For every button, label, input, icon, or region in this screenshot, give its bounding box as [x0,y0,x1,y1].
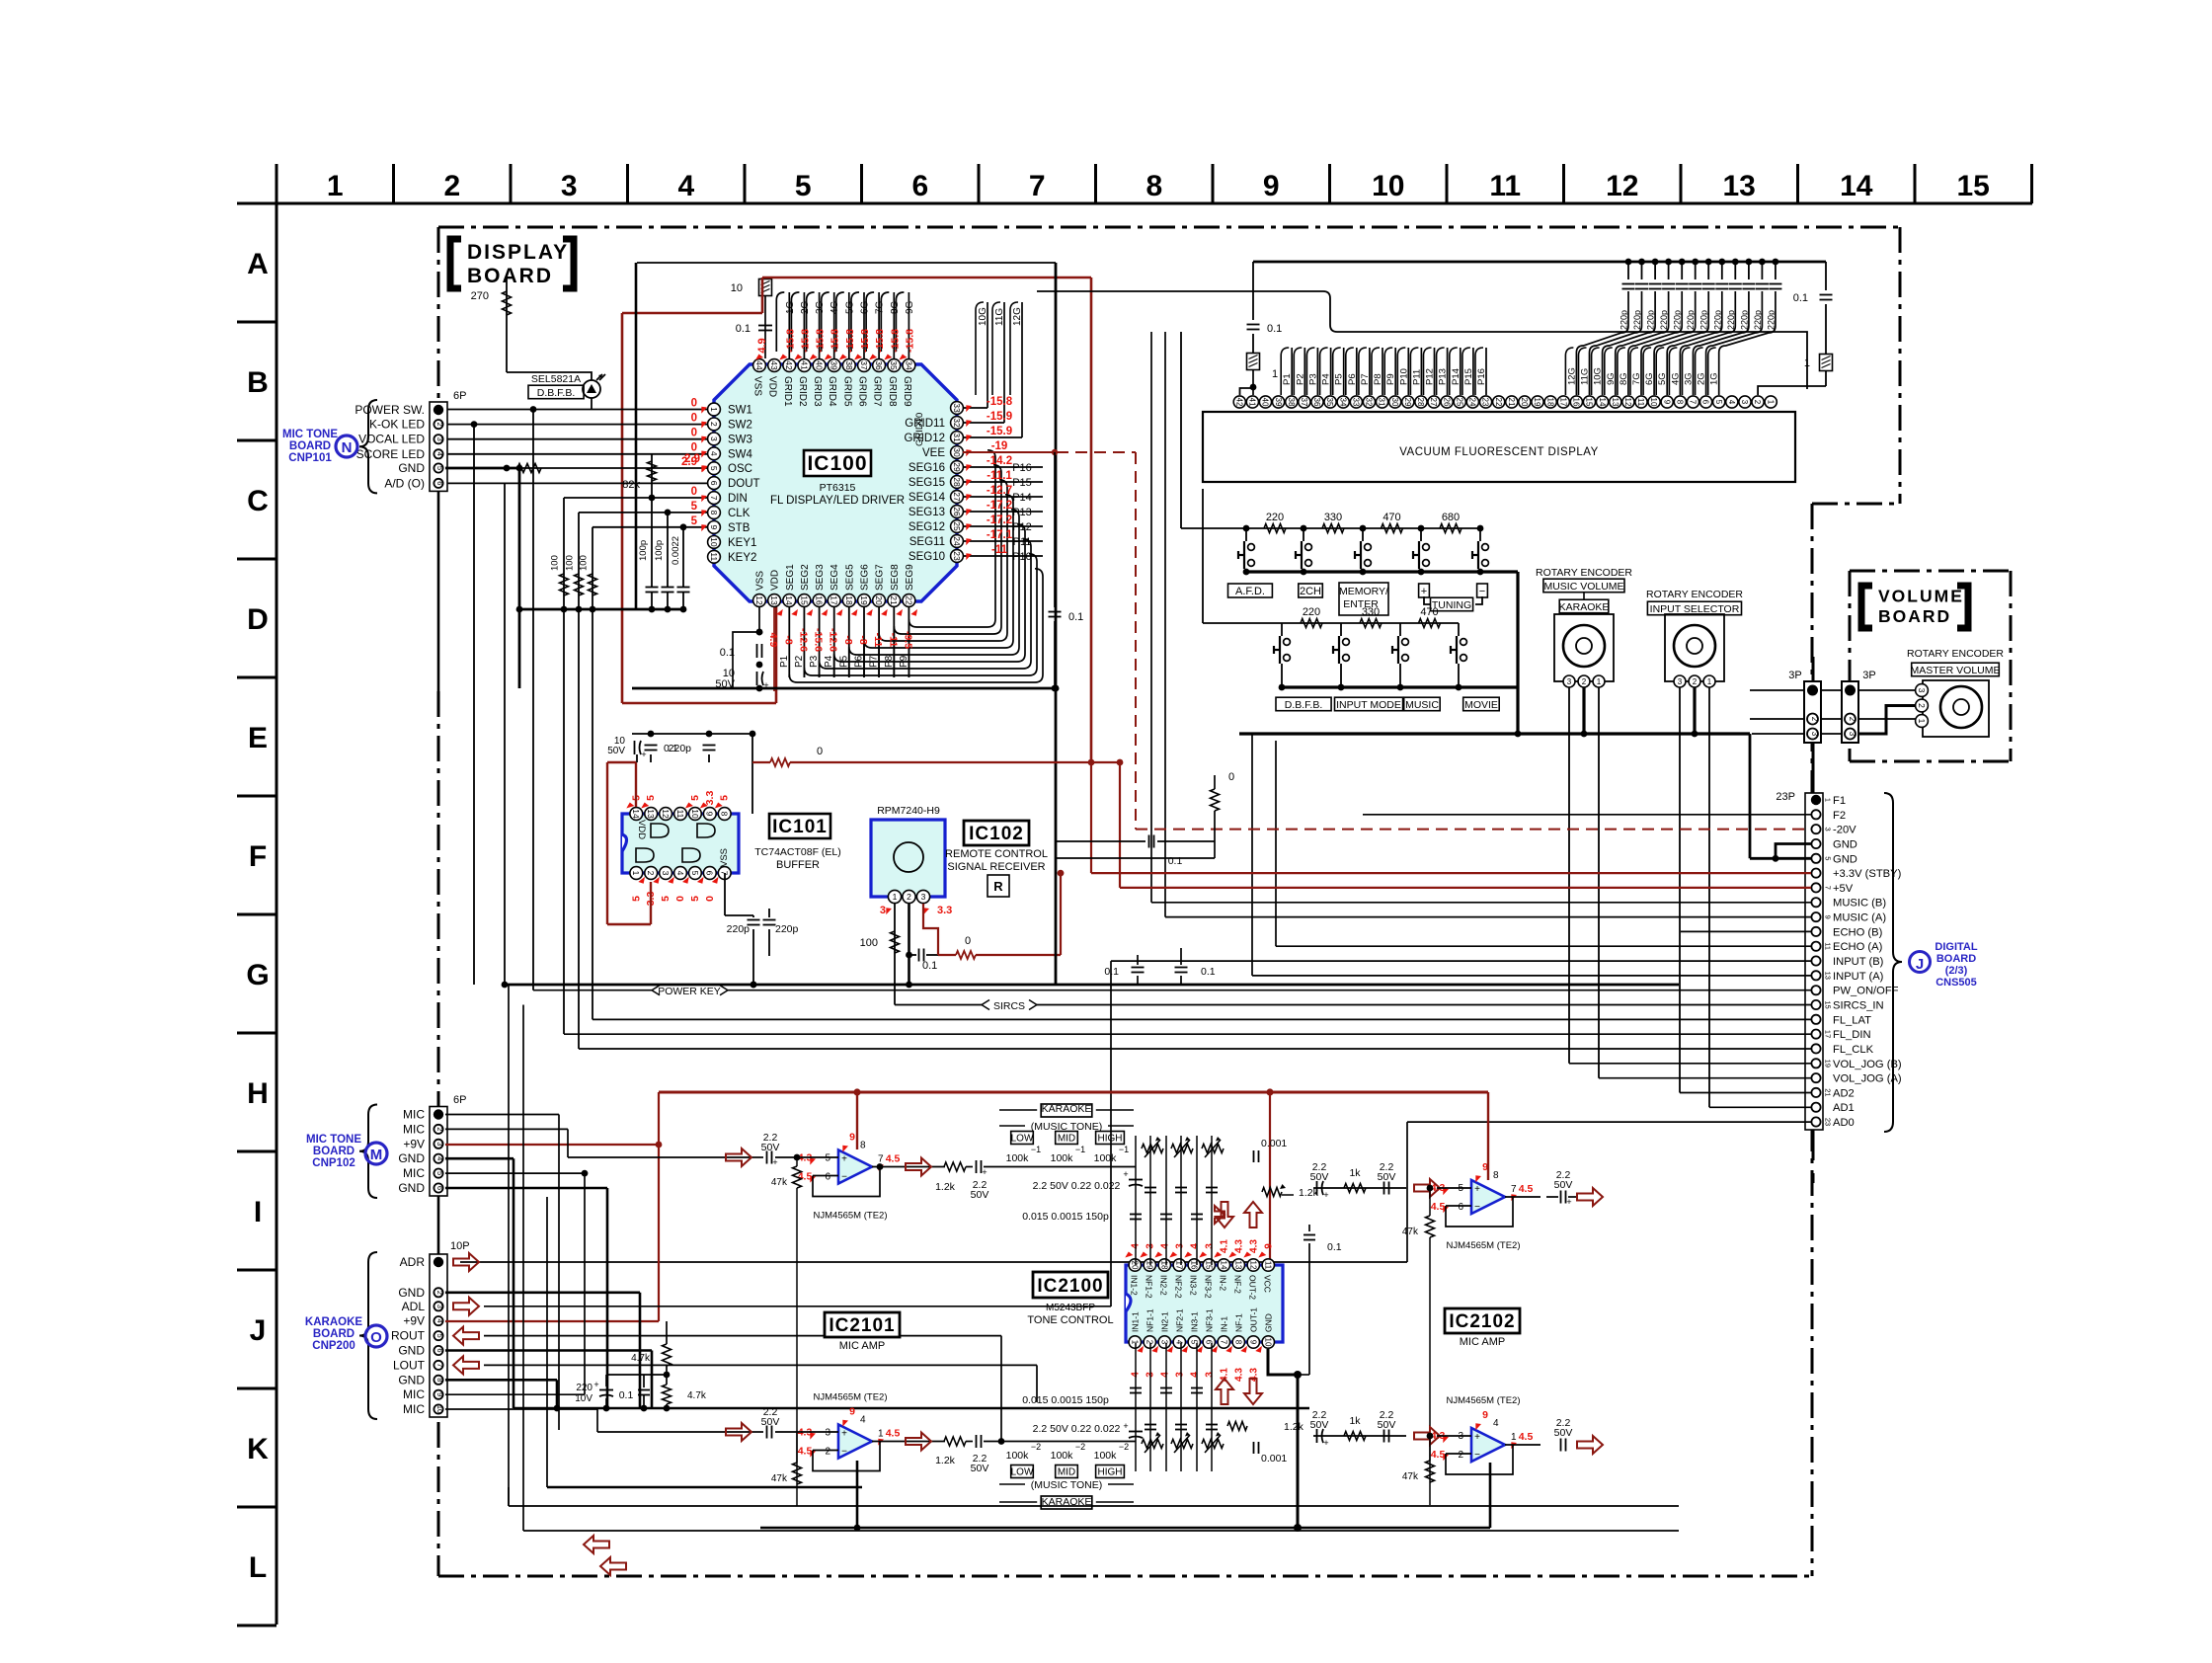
svg-text:IN2-1: IN2-1 [1159,1311,1169,1332]
svg-text:1: 1 [1511,1432,1517,1443]
svg-text:ECHO (A): ECHO (A) [1833,941,1883,953]
svg-text:M5243BFP: M5243BFP [1046,1303,1095,1313]
svg-text:GND: GND [1833,839,1857,851]
svg-text:-15.8: -15.8 [859,329,871,353]
svg-text:BUFFER: BUFFER [776,859,820,871]
svg-text:82k: 82k [622,479,640,491]
svg-text:-11.1: -11.1 [987,470,1012,482]
svg-text:IN-1: IN-1 [1219,1316,1228,1332]
svg-text:38: 38 [1287,398,1296,407]
svg-text:4: 4 [1189,1372,1200,1378]
svg-text:INPUT SELECTOR: INPUT SELECTOR [1650,603,1740,615]
svg-text:2: 2 [435,1127,444,1131]
svg-text:0.1: 0.1 [1201,966,1216,978]
svg-text:GND: GND [398,1151,425,1165]
svg-text:J: J [250,1314,267,1347]
svg-text:5: 5 [709,466,719,471]
svg-text:44: 44 [754,360,764,370]
svg-text:BOARD: BOARD [467,265,553,287]
svg-text:220p: 220p [1739,310,1749,330]
svg-text:3: 3 [1159,1340,1168,1345]
svg-text:3P: 3P [1862,670,1875,681]
svg-text:9: 9 [435,1392,444,1396]
svg-text:36: 36 [874,360,884,370]
svg-text:20: 20 [1130,1261,1139,1270]
svg-text:GND: GND [398,1181,425,1195]
svg-text:8: 8 [860,1141,866,1151]
svg-text:GRID7: GRID7 [872,376,883,407]
svg-text:11G: 11G [994,308,1005,326]
svg-text:3: 3 [825,1428,830,1439]
svg-text:0: 0 [691,441,697,453]
svg-text:GND: GND [398,1344,425,1358]
svg-text:GRID1: GRID1 [782,376,793,407]
svg-text:P13: P13 [1438,368,1449,385]
svg-text:5: 5 [630,896,642,902]
svg-text:4.7k: 4.7k [631,1353,651,1364]
svg-text:+: + [1323,1438,1328,1448]
svg-text:3: 3 [1824,828,1833,831]
svg-text:4.3: 4.3 [1233,1368,1244,1382]
svg-text:VDD: VDD [767,376,778,397]
svg-text:41: 41 [1248,398,1257,407]
svg-text:10: 10 [690,809,700,819]
svg-text:33: 33 [952,403,962,413]
svg-text:21: 21 [1824,1088,1833,1096]
svg-text:5: 5 [825,1153,830,1164]
svg-text:220p: 220p [1699,310,1709,330]
svg-text:SW1: SW1 [728,405,752,417]
svg-text:F1: F1 [1833,795,1846,807]
svg-text:10: 10 [1263,1338,1272,1347]
svg-text:38: 38 [844,360,854,370]
svg-text:0.1: 0.1 [1104,966,1119,978]
svg-text:KEY1: KEY1 [728,537,756,549]
svg-text:4G: 4G [829,300,840,314]
svg-text:100: 100 [860,937,878,949]
svg-text:2CH: 2CH [1300,586,1321,597]
svg-text:1: 1 [1917,719,1927,724]
svg-text:6: 6 [825,1172,830,1183]
svg-text:6: 6 [705,871,715,876]
svg-text:CLK: CLK [728,508,750,519]
svg-text:DISPLAY: DISPLAY [467,241,569,264]
svg-text:P2: P2 [794,655,805,668]
svg-text:MUSIC (A): MUSIC (A) [1833,912,1886,924]
svg-text:9: 9 [1824,915,1833,919]
svg-text:50V: 50V [1378,1419,1396,1431]
svg-text:6: 6 [911,170,928,202]
svg-text:3: 3 [1810,732,1819,737]
svg-text:5: 5 [689,795,701,801]
svg-text:FL DISPLAY/LED DRIVER: FL DISPLAY/LED DRIVER [770,495,905,507]
svg-text:6: 6 [1458,1202,1463,1213]
svg-text:SEG6: SEG6 [860,564,871,591]
svg-text:1G: 1G [785,300,796,314]
svg-text:IN2-2: IN2-2 [1158,1275,1168,1296]
svg-text:220p: 220p [1646,310,1656,330]
svg-text:4.5: 4.5 [1519,1183,1534,1195]
svg-text:4: 4 [1159,1372,1170,1378]
svg-text:5: 5 [691,515,698,527]
svg-text:OSC: OSC [728,463,752,475]
svg-text:NF2-2: NF2-2 [1173,1275,1183,1299]
svg-text:27: 27 [952,492,962,502]
svg-text:10V: 10V [575,1393,592,1404]
svg-text:4.5: 4.5 [886,1428,901,1440]
svg-text:FL_DIN: FL_DIN [1833,1029,1871,1041]
svg-text:SEG8: SEG8 [890,564,901,591]
svg-text:GRID9: GRID9 [902,376,912,407]
svg-text:NF-2: NF-2 [1232,1275,1242,1294]
svg-text:50V: 50V [761,1416,780,1428]
svg-text:6P: 6P [453,390,466,402]
svg-text:-17.2: -17.2 [987,500,1012,512]
svg-text:3: 3 [435,1305,444,1308]
svg-text:6: 6 [709,481,719,486]
svg-text:+: + [1123,1421,1128,1431]
svg-text:P12: P12 [1425,368,1436,385]
svg-text:15: 15 [1957,170,1990,202]
svg-text:VACUUM FLUORESCENT DISPLAY: VACUUM FLUORESCENT DISPLAY [1399,446,1599,458]
svg-text:−2: −2 [1031,1442,1041,1452]
svg-text:+: + [1474,1184,1480,1195]
svg-text:19: 19 [1824,1060,1833,1068]
svg-text:0: 0 [817,746,823,757]
svg-text:ADL: ADL [402,1300,426,1313]
svg-text:-15.8: -15.8 [815,329,827,353]
svg-text:SEG1: SEG1 [785,564,796,591]
svg-text:1: 1 [1824,798,1833,802]
svg-text:IC2102: IC2102 [1449,1311,1515,1332]
svg-text:3.3: 3.3 [937,905,952,916]
svg-text:7G: 7G [875,300,886,314]
svg-text:220p: 220p [1632,310,1642,330]
svg-text:+: + [1474,1432,1480,1443]
svg-text:+: + [1123,1169,1128,1179]
svg-text:INPUT (B): INPUT (B) [1833,956,1884,968]
svg-text:MID: MID [1058,1467,1075,1478]
svg-text:SEL5821A: SEL5821A [531,373,581,385]
svg-text:14: 14 [631,809,641,819]
svg-text:INPUT (A): INPUT (A) [1833,971,1884,983]
svg-text:ECHO (B): ECHO (B) [1833,926,1883,938]
svg-text:16: 16 [815,595,825,605]
svg-text:ROTARY ENCODER: ROTARY ENCODER [1646,589,1743,600]
svg-text:4.5: 4.5 [1431,1449,1446,1461]
svg-text:3: 3 [921,892,926,902]
svg-text:20: 20 [1520,398,1529,407]
svg-text:680: 680 [1442,512,1460,523]
svg-text:VOLUME: VOLUME [1878,587,1964,606]
svg-text:P14: P14 [1012,492,1032,504]
svg-text:10: 10 [1372,170,1404,202]
svg-text:8G: 8G [890,300,901,314]
svg-text:9: 9 [849,1132,855,1144]
svg-text:25: 25 [952,521,962,531]
svg-text:220p: 220p [1686,310,1696,330]
svg-text:A.F.D.: A.F.D. [1235,586,1265,597]
svg-text:CNS505: CNS505 [1935,977,1977,989]
svg-text:K: K [247,1433,269,1465]
svg-text:P8: P8 [1373,373,1383,385]
svg-text:−: − [841,1172,847,1183]
svg-text:4.9: 4.9 [767,633,779,648]
svg-text:3: 3 [661,871,671,876]
svg-text:330: 330 [1362,606,1380,618]
svg-text:0.1: 0.1 [1327,1241,1342,1253]
svg-text:VDD: VDD [770,570,781,591]
svg-text:6G: 6G [860,300,871,314]
svg-text:P5: P5 [1334,373,1345,385]
svg-text:A: A [247,248,269,280]
svg-text:7: 7 [709,496,719,501]
svg-text:50V: 50V [761,1142,780,1153]
svg-text:+5V: +5V [1833,883,1854,895]
svg-text:17: 17 [1824,1030,1833,1038]
svg-text:0: 0 [704,896,716,902]
svg-text:1: 1 [1130,1340,1139,1345]
svg-text:NF2-1: NF2-1 [1174,1308,1184,1332]
svg-text:11: 11 [1263,1261,1272,1270]
svg-text:50V: 50V [1310,1171,1329,1183]
svg-text:4: 4 [435,1156,444,1160]
svg-text:SEG13: SEG13 [908,507,945,518]
svg-text:4.5: 4.5 [798,1446,813,1458]
svg-text:12G: 12G [1012,307,1023,326]
svg-text:9: 9 [849,1406,855,1418]
svg-text:0.0022: 0.0022 [671,536,681,565]
svg-text:25: 25 [1455,398,1463,407]
svg-text:5G: 5G [844,300,855,314]
svg-text:28: 28 [1416,398,1425,407]
svg-text:50V: 50V [971,1189,989,1201]
svg-text:HIGH: HIGH [1098,1134,1123,1145]
svg-text:0.015 0.0015 150p: 0.015 0.0015 150p [1022,1394,1109,1406]
svg-text:BOARD: BOARD [289,440,331,452]
svg-text:220p: 220p [1673,310,1683,330]
svg-text:4: 4 [860,1415,866,1426]
svg-text:10G: 10G [978,307,988,326]
svg-text:5: 5 [645,795,657,801]
svg-text:2: 2 [1753,400,1762,405]
svg-text:220p: 220p [775,923,799,935]
svg-text:3: 3 [880,905,886,916]
svg-text:+: + [593,1380,598,1389]
svg-text:10: 10 [731,282,743,294]
svg-text:10P: 10P [450,1240,470,1252]
svg-text:GRID10: GRID10 [914,413,925,446]
svg-text:AD1: AD1 [1833,1102,1855,1114]
svg-text:5: 5 [435,1334,444,1338]
svg-text:L: L [249,1551,267,1584]
svg-text:P12: P12 [1012,521,1032,533]
svg-text:2.9: 2.9 [681,456,697,468]
svg-text:NJM4565M (TE2): NJM4565M (TE2) [1447,1240,1521,1251]
svg-text:ADR: ADR [400,1255,426,1269]
svg-text:7: 7 [1511,1184,1517,1195]
svg-text:3: 3 [1174,1372,1185,1378]
svg-text:P9: P9 [1385,373,1396,385]
svg-text:DOUT: DOUT [728,478,760,490]
svg-text:220: 220 [576,1383,592,1393]
svg-text:P3: P3 [809,655,820,668]
svg-text:220p: 220p [1619,310,1629,330]
svg-text:SEG12: SEG12 [908,521,945,533]
svg-text:VOL_JOG (A): VOL_JOG (A) [1833,1073,1902,1085]
svg-text:23: 23 [1824,1118,1833,1126]
svg-text:P11: P11 [1013,536,1032,548]
svg-text:11: 11 [1489,170,1521,202]
svg-text:SEG2: SEG2 [800,564,811,591]
svg-text:1: 1 [1597,677,1602,686]
svg-text:SEG15: SEG15 [908,477,945,489]
svg-text:NJM4565M (TE2): NJM4565M (TE2) [1447,1395,1521,1406]
svg-text:F2: F2 [1833,810,1846,822]
svg-text:ROTARY ENCODER: ROTARY ENCODER [1907,648,2004,660]
svg-text:31: 31 [952,433,962,442]
svg-text:220p: 220p [1659,310,1669,330]
svg-text:0.015 0.0015 150p: 0.015 0.0015 150p [1022,1211,1109,1223]
svg-text:−2: −2 [1075,1442,1085,1452]
svg-text:3: 3 [561,170,578,202]
svg-text:36: 36 [1312,398,1321,407]
svg-text:SIRCS_IN: SIRCS_IN [1833,1000,1884,1012]
svg-text:6: 6 [435,1348,444,1352]
svg-text:MIC AMP: MIC AMP [839,1340,885,1352]
svg-text:+: + [841,1429,847,1440]
svg-text:IC101: IC101 [772,817,828,837]
svg-text:P6: P6 [1347,373,1358,385]
svg-text:17: 17 [829,595,839,605]
svg-text:SEG14: SEG14 [908,492,946,504]
svg-text:NJM4565M (TE2): NJM4565M (TE2) [814,1211,888,1222]
svg-text:P1: P1 [779,655,790,668]
svg-text:6: 6 [1701,400,1710,405]
svg-text:1: 1 [1707,677,1712,686]
svg-text:6: 6 [435,481,444,485]
svg-text:3: 3 [435,1142,444,1146]
svg-text:100: 100 [579,555,590,571]
svg-text:42: 42 [784,360,794,370]
svg-text:D: D [247,603,269,636]
svg-text:0.1: 0.1 [1267,323,1282,335]
svg-text:GRID3: GRID3 [812,376,823,407]
svg-text:9: 9 [1263,170,1280,202]
svg-text:32: 32 [952,418,962,428]
svg-text:−: − [1474,1202,1480,1213]
svg-text:MOVIE: MOVIE [1464,699,1498,711]
svg-text:1: 1 [709,407,719,412]
svg-text:-15.8: -15.8 [889,329,901,353]
svg-text:14: 14 [1840,170,1873,202]
svg-text:R: R [993,879,1003,894]
svg-text:3: 3 [1174,1243,1185,1249]
svg-text:IN-2: IN-2 [1218,1275,1227,1291]
svg-text:14: 14 [1219,1261,1227,1270]
svg-text:100k: 100k [1051,1152,1074,1164]
svg-text:22: 22 [904,595,913,605]
svg-text:4: 4 [1159,1243,1170,1249]
svg-text:47k: 47k [771,1177,788,1188]
svg-text:+: + [772,1157,777,1167]
svg-text:8: 8 [1493,1170,1499,1181]
svg-text:NF-1: NF-1 [1233,1313,1243,1332]
svg-text:MID: MID [1058,1134,1075,1145]
svg-text:4.5: 4.5 [886,1153,901,1165]
svg-text:F: F [249,840,267,873]
svg-text:13: 13 [1824,972,1833,980]
svg-text:9: 9 [1248,1340,1257,1345]
svg-text:TC74ACT08F (EL): TC74ACT08F (EL) [754,846,841,858]
svg-text:LOW: LOW [1011,1134,1034,1145]
svg-text:32: 32 [1365,398,1374,407]
svg-text:13: 13 [646,809,656,819]
svg-text:-11: -11 [991,544,1008,556]
svg-text:-15.8: -15.8 [799,329,811,353]
svg-text:4: 4 [675,871,685,876]
svg-text:GRID6: GRID6 [857,376,868,407]
svg-text:SIRCS: SIRCS [993,1000,1025,1012]
svg-text:1: 1 [1272,368,1278,380]
svg-text:14: 14 [784,595,794,605]
svg-text:REMOTE CONTROL: REMOTE CONTROL [945,848,1048,860]
svg-text:2.2 50V 0.22 0.022: 2.2 50V 0.22 0.022 [1033,1180,1121,1192]
svg-text:0: 0 [674,896,686,902]
svg-text:IN1-1: IN1-1 [1130,1311,1140,1332]
svg-text:1: 1 [893,892,898,902]
svg-text:SEG9: SEG9 [905,564,915,591]
svg-text:-12.7: -12.7 [987,485,1012,497]
svg-text:GRID8: GRID8 [887,376,898,407]
svg-text:7: 7 [878,1154,884,1165]
svg-text:KEY2: KEY2 [728,552,756,564]
svg-text:100k: 100k [1094,1152,1118,1164]
svg-text:SEG10: SEG10 [908,551,945,563]
svg-text:SEG4: SEG4 [829,564,840,591]
svg-text:23: 23 [952,551,962,561]
svg-text:POWER SW.: POWER SW. [355,403,425,417]
svg-text:-15.8: -15.8 [874,329,886,353]
svg-text:4: 4 [709,451,719,456]
svg-text:0.1: 0.1 [1068,611,1083,623]
svg-text:O: O [370,1329,382,1346]
svg-text:VSS: VSS [755,571,766,591]
svg-text:4: 4 [677,170,694,202]
svg-text:35: 35 [1325,398,1334,407]
svg-text:270: 270 [471,290,489,302]
svg-text:IC2101: IC2101 [829,1315,895,1336]
svg-text:K-OK LED: K-OK LED [369,418,425,432]
svg-text:37: 37 [859,360,869,370]
svg-text:MUSIC VOLUME: MUSIC VOLUME [1543,581,1623,593]
svg-text:P1: P1 [1282,373,1293,385]
svg-text:47k: 47k [771,1473,788,1484]
svg-text:0.001: 0.001 [1261,1138,1287,1149]
svg-text:H: H [247,1077,269,1110]
svg-text:+: + [1323,1190,1328,1200]
svg-text:GRID4: GRID4 [827,376,837,407]
svg-text:NF3-2: NF3-2 [1203,1275,1213,1299]
svg-text:RPM7240-H9: RPM7240-H9 [877,805,940,817]
svg-text:SW4: SW4 [728,448,753,460]
svg-text:0: 0 [691,427,697,438]
svg-text:KARAOKE: KARAOKE [1559,601,1610,613]
svg-text:14: 14 [1598,398,1607,407]
svg-text:−1: −1 [1119,1145,1129,1154]
svg-text:2: 2 [1693,677,1698,686]
svg-text:P15: P15 [1012,477,1032,489]
